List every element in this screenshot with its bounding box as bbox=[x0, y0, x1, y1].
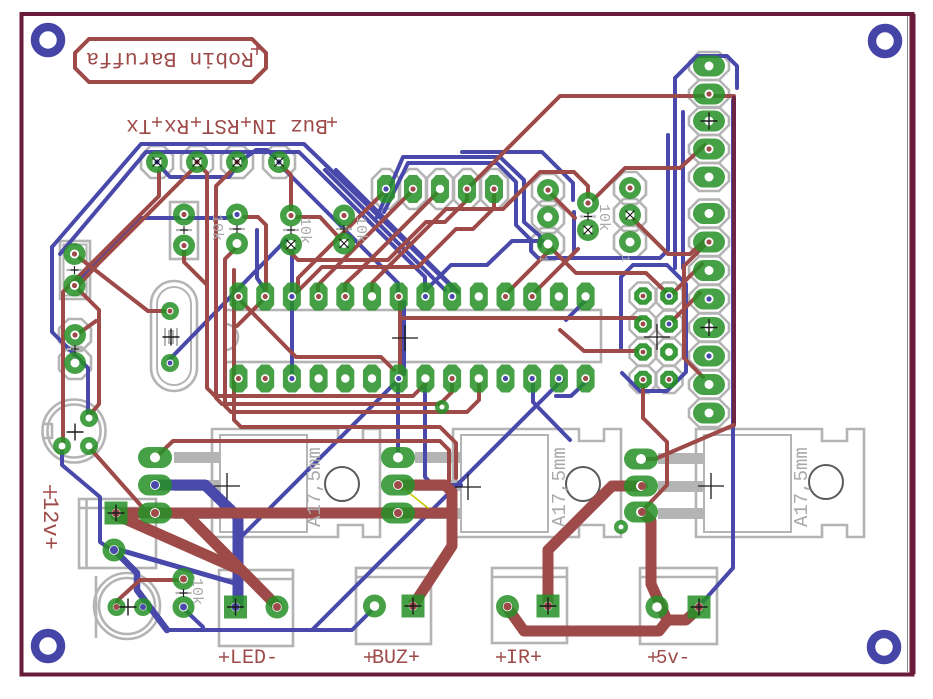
header JP1 pad outlines (Buz IN RST Rx Tx) bbox=[141, 146, 173, 178]
wire: crystal to J2 bbox=[77, 256, 170, 311]
wire: U-route 4 around DIP bbox=[234, 270, 456, 478]
wire: 12v pad to LED net bbox=[116, 549, 238, 584]
svg-text:IR+: IR+ bbox=[506, 647, 542, 670]
wire: staircase 2 bbox=[296, 192, 494, 293]
wire: center diagonal B bbox=[336, 170, 458, 292]
12V X1 square pad bbox=[105, 502, 128, 525]
wire: pad link row 1 bbox=[157, 163, 237, 177]
via V1 bbox=[435, 400, 449, 414]
wire: right long vertical to 5V bbox=[701, 100, 733, 604]
wire: 10k R5 to header bbox=[589, 145, 705, 204]
wire: resistor R3 to DIP bbox=[290, 246, 294, 293]
svg-text:LED-: LED- bbox=[230, 647, 278, 670]
svg-text:A17,5mm: A17,5mm bbox=[549, 447, 571, 527]
wire: DIP top to triple A bbox=[505, 248, 552, 295]
mounting hole top-left bbox=[35, 27, 61, 53]
wire: J1 to R2 blue bbox=[75, 215, 237, 284]
wire: loop around 2x4 header bbox=[621, 265, 686, 391]
crystal Q1 pads bbox=[161, 302, 179, 320]
wire: DIP diag to LED blue bbox=[240, 380, 398, 538]
5-pad row JP2 pads bbox=[377, 175, 395, 203]
thick red branch to LED bbox=[186, 514, 277, 606]
wire: mid horizontal long bbox=[402, 318, 643, 322]
right header JP3 pads bbox=[693, 56, 725, 77]
wire: header left vertical B bbox=[681, 112, 685, 268]
thick red IR to 5V bbox=[507, 607, 667, 631]
wire: red staircase to 10k R5 bbox=[372, 172, 588, 290]
wire: crystal diagonal bbox=[169, 240, 286, 360]
wire: U-route 2 around DIP bbox=[216, 165, 452, 404]
yellow airwire bbox=[403, 488, 428, 508]
svg-text:BUZ+: BUZ+ bbox=[372, 647, 420, 670]
wire: DIP vertical mid bbox=[398, 298, 402, 374]
wire: blue hat over 5-pad row outer bbox=[377, 157, 540, 246]
svg-text:1: 1 bbox=[536, 255, 550, 262]
mounting hole bottom-left bbox=[35, 633, 61, 659]
wire: 10k R6 to barrel bbox=[117, 580, 183, 605]
wire: 10k R5 to 2x4 bbox=[548, 245, 669, 295]
wire: triple link bbox=[548, 191, 575, 218]
wire: red diag pad3 to DIP bbox=[345, 190, 440, 292]
triple column B pads bbox=[619, 177, 641, 199]
wire: red crossing DIP body bbox=[239, 299, 394, 370]
DIP-28 U1 bottom row pads bbox=[230, 365, 248, 393]
wire: center diagonal A bbox=[325, 170, 445, 290]
mounting hole top-right bbox=[872, 28, 898, 54]
wire: left blue vertical to trimmer bbox=[52, 247, 88, 413]
5V connector pads bbox=[646, 596, 669, 619]
wire: long red top to header bbox=[470, 96, 734, 186]
TO220 VR3 package outline bbox=[696, 429, 864, 537]
TO220 VR2 package outline bbox=[453, 429, 621, 537]
wire: VR1 pad1 long red bbox=[155, 441, 449, 481]
wire: S-route center bbox=[425, 241, 543, 291]
triple column A pads bbox=[537, 179, 559, 201]
LED connector outline bbox=[219, 570, 293, 646]
thick red VR3 to IR bbox=[548, 486, 642, 604]
wire: triple B to header bbox=[630, 216, 705, 254]
BUZ connector pads bbox=[363, 595, 386, 618]
connector J1 pads bbox=[64, 243, 86, 265]
wire: mid-DIP long red to 2x4 bbox=[560, 330, 637, 351]
wire: jog to DIP pad 2 bbox=[257, 230, 265, 294]
wire: U-route 3 around DIP bbox=[225, 247, 479, 412]
resistor R4 pads bbox=[333, 205, 355, 227]
wire: DIP pad diag right bbox=[533, 379, 570, 440]
svg-text:Robin Baruffa: Robin Baruffa bbox=[86, 46, 254, 70]
wire: pad link row 2 bbox=[238, 150, 279, 163]
wire: diagonal from Tx pad bbox=[279, 164, 398, 293]
resistor R2 pads bbox=[226, 204, 248, 226]
5-pad row JP2 outlines bbox=[372, 169, 400, 209]
wire: 2x4 down to VR3 pad3 bbox=[643, 380, 667, 507]
wire: blue stub triple inner bbox=[572, 212, 576, 252]
wire: resistor link R3-R4 bbox=[294, 217, 344, 243]
IR connector pads bbox=[496, 595, 519, 618]
right header JP3 outlines bbox=[689, 52, 729, 80]
wire: inner blue wrap top-left bbox=[60, 152, 425, 290]
resistor R6 pads bbox=[173, 568, 195, 590]
connector J2 outline (2-pin, left) bbox=[59, 319, 91, 351]
wire: header to 2x4 right vertical bbox=[684, 245, 705, 377]
svg-text:A17,5mm: A17,5mm bbox=[791, 447, 813, 527]
barrel jack pads bbox=[108, 598, 126, 616]
resistor R5 pads bbox=[577, 192, 599, 214]
pad octagon outlines bbox=[141, 52, 729, 427]
TO220 VR3 pads bbox=[624, 449, 658, 470]
wire: red diag pair B bbox=[77, 165, 197, 287]
resistor R1 outline bbox=[170, 202, 198, 259]
2x4 header JP4 outlines bbox=[630, 283, 657, 310]
wire: trimmer to 12v bbox=[62, 447, 110, 549]
wire: trimmer down bbox=[89, 447, 143, 508]
svg-text:5v-: 5v- bbox=[656, 647, 690, 669]
wire: 2x4 to header A bbox=[669, 264, 702, 297]
wire: J1 pad2 down to trimmer bbox=[75, 286, 99, 416]
wire: outer blue wrap top-left bbox=[52, 144, 452, 293]
wire: bottom run LED-BUZ bbox=[167, 607, 375, 630]
svg-text:10k: 10k bbox=[188, 578, 205, 605]
mounting hole bottom-right bbox=[871, 634, 897, 660]
wire: blue hat over 5-pad row inner bbox=[384, 135, 668, 258]
DIP-28 IC U1 outline bbox=[225, 310, 601, 362]
thick blue VR1 to LED bbox=[155, 485, 238, 604]
barrel jack outline bbox=[94, 573, 160, 639]
trimmer/cap C1 circles bbox=[43, 400, 106, 463]
svg-text:A17,5mm: A17,5mm bbox=[304, 447, 326, 527]
5V connector outline bbox=[640, 568, 717, 644]
header JP1 pads bbox=[146, 151, 168, 173]
svg-text:10k: 10k bbox=[352, 216, 369, 243]
triple column A outlines bbox=[532, 174, 564, 206]
wire: J2 pad stub bbox=[75, 321, 96, 336]
thick red VR3 to 5V bbox=[642, 512, 699, 620]
wire: DIP top to triple B bbox=[532, 249, 578, 295]
svg-text:12v+: 12v+ bbox=[37, 497, 62, 550]
BUZ connector outline bbox=[356, 568, 431, 644]
wire: red diag pad1 to DIP bbox=[298, 190, 386, 290]
IR connector outline bbox=[492, 568, 567, 643]
wire: blue crossing DIP body A bbox=[290, 300, 294, 374]
triple column B outlines bbox=[614, 172, 646, 204]
connector J1 outline (2-pin, left) bbox=[60, 241, 90, 299]
wire: red diag pair A bbox=[63, 172, 159, 444]
resistor R1 pads bbox=[173, 204, 195, 226]
LED connector pads bbox=[224, 596, 247, 619]
svg-text:10k: 10k bbox=[208, 214, 225, 241]
thick red VR2 to BUZ bbox=[398, 485, 452, 604]
DIP-28 U1 top row pads bbox=[230, 283, 248, 311]
12V X1 round pad bbox=[103, 539, 126, 562]
wire: red diag pad2 to DIP bbox=[318, 190, 413, 292]
via V2 bbox=[614, 520, 628, 534]
connector J2 pads bbox=[64, 324, 86, 346]
wire: U-route 1 around DIP bbox=[198, 164, 426, 396]
resistor R3 pads bbox=[280, 205, 302, 227]
wire: pad4 to R3 bbox=[279, 163, 291, 210]
wire: DIP pad stub bbox=[566, 297, 589, 320]
TO220 VR1 package outline bbox=[212, 429, 380, 537]
wire: DIP to VR2 pad bbox=[396, 380, 400, 452]
wire: staircase 1 bbox=[285, 191, 467, 260]
wire: overlap vertical (red over blue) bbox=[732, 98, 736, 425]
crosses on pads bbox=[67, 113, 725, 616]
svg-text:1: 1 bbox=[618, 255, 632, 262]
wire: above 5-pad row bbox=[462, 152, 573, 200]
wire: header vertical to VR3 pad bbox=[646, 425, 734, 459]
crystal Q1 outline bbox=[151, 281, 197, 391]
name cross bbox=[251, 43, 263, 55]
crystal glyph bbox=[165, 328, 177, 346]
wire: long diagonal to BUZ bbox=[313, 379, 563, 629]
12V connector X1 outline bbox=[79, 499, 156, 568]
2x4 header JP4 pads bbox=[635, 288, 652, 305]
wire: 2x4 to header B bbox=[669, 293, 700, 324]
name label octagon frame bbox=[75, 39, 266, 82]
thick blue 12v round pad branch bbox=[114, 550, 167, 630]
thick red 12V power rail bbox=[116, 508, 446, 519]
wire: red DIP pad2 stub bbox=[237, 299, 264, 326]
svg-text:10k: 10k bbox=[595, 204, 612, 231]
wire: header left vertical A bbox=[675, 56, 737, 268]
colored hole dots bbox=[72, 91, 712, 611]
TO220 VR2 pads bbox=[381, 447, 415, 468]
wire: blue crossing DIP body B bbox=[402, 302, 406, 374]
TO220 VR1 pads bbox=[138, 447, 172, 468]
wire: resistor to DIP pad bbox=[245, 217, 266, 290]
wire: DIP pad8 down bbox=[425, 380, 461, 485]
wire: DIP bottom stub bbox=[556, 379, 589, 396]
trimmer C1 pads bbox=[80, 409, 98, 427]
